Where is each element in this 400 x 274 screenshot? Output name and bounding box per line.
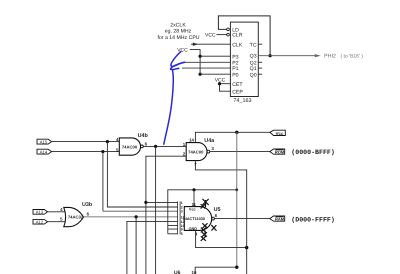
nand U4b	[119, 138, 140, 155]
wire U4a output to ROM flag	[210, 151, 270, 153]
pin stub below U5	[204, 230, 206, 237]
wire U3b output to U5 input	[84, 216, 178, 218]
junction Vcc to U6	[235, 266, 238, 269]
inverter bubble U4a output	[207, 150, 210, 153]
net flag A14	[37, 149, 52, 154]
net flag A12	[33, 219, 48, 224]
junction A14 branch	[101, 150, 104, 153]
junction Q3 feedback	[269, 54, 272, 57]
wire A15 to U4b pin4	[52, 141, 120, 143]
wire P0	[200, 73, 230, 75]
wire P3	[200, 55, 230, 57]
wire U4b out branch down to bottom	[155, 146, 157, 274]
wire U6 Vcc pin top	[195, 267, 237, 274]
pen X marks crossing unused U5 pins bottom	[201, 224, 216, 241]
wire A12 to U3b	[48, 221, 65, 223]
junction VCC-CET	[218, 82, 221, 85]
wire U4a pin7 ground run	[195, 161, 246, 274]
junction U4b out branch	[154, 145, 157, 148]
inverter bubble U5 output	[212, 217, 215, 220]
net flag A15	[37, 139, 52, 144]
wire P1	[182, 67, 230, 69]
junction Vcc rail branch	[235, 131, 238, 134]
wire U5 output to RAM flag	[214, 218, 269, 220]
wire U5 GND pin down	[196, 230, 247, 247]
inverter bubble on CLR pin	[227, 33, 230, 36]
junction pin2 net to U5 input	[144, 201, 147, 204]
arrowhead on CLK wire	[193, 43, 198, 46]
wire U4a pin14 to Vcc rail	[195, 132, 270, 142]
wire A14 branch down to U5	[102, 152, 104, 212]
wire U4b out to U4a pin1	[143, 145, 186, 147]
junction VCC-P3	[199, 55, 202, 58]
pen X marks crossing unused U5 pins top	[201, 199, 208, 208]
wire CLK input	[191, 43, 230, 45]
wire pin11 stub U5	[193, 190, 195, 207]
blue pen annotation curl on P2/P1	[170, 52, 184, 70]
pin stub Q2	[258, 61, 262, 63]
wire Vcc box to U5 bracket	[168, 190, 237, 234]
pin stub Q0	[258, 73, 262, 75]
wire A14 to U4b pin5	[52, 151, 120, 153]
pin stub Q1	[258, 67, 262, 69]
wire U4a pin2 from below	[146, 156, 186, 274]
junction Vcc to pin11	[192, 188, 195, 191]
pin numbers U5 inputs	[181, 201, 185, 236]
net flag A13	[33, 210, 48, 215]
wire bracket net corner to U5 input	[127, 221, 178, 274]
inverter bubble U4b output	[141, 145, 144, 148]
wire VCC to P rail	[190, 50, 200, 75]
wire A15 branch down to U5	[107, 142, 177, 207]
nand U5 74ACT11030	[183, 207, 212, 232]
junction GND net	[245, 246, 248, 249]
counter U? 74_163 body	[230, 22, 258, 96]
junction Vcc rail corner	[235, 188, 238, 191]
net flag ROM	[270, 149, 285, 155]
U5 input pin bus lines	[178, 201, 181, 234]
arrowhead PHI2	[315, 54, 321, 57]
wire feedback Q3 to LD	[218, 16, 270, 56]
blue pen annotation tail down to U4 net	[164, 70, 174, 145]
wire U3b out branch down	[135, 217, 137, 274]
wire unused-input bracket rungs	[168, 226, 178, 234]
junction U3b out branch	[135, 215, 138, 218]
net flag RAM	[270, 216, 285, 222]
wire pin2 net branch to U5	[146, 201, 178, 203]
pin stub TC	[258, 43, 262, 45]
junction A15 branch	[106, 140, 109, 143]
nand U4a	[186, 143, 207, 161]
or-gate U3b	[64, 207, 84, 226]
wire Q3 to PHI2	[258, 55, 315, 57]
wire A13 to U3b	[48, 211, 65, 213]
wire VCC to CET CEP	[220, 82, 231, 91]
wire VCC to CLR bubble	[217, 34, 227, 36]
wire P2	[183, 61, 231, 63]
inverter bubble on LD pin	[227, 28, 230, 31]
power flag Vcc	[270, 130, 285, 136]
junction VCC-P0	[199, 73, 202, 76]
wire Vcc feed vertical	[236, 132, 238, 267]
